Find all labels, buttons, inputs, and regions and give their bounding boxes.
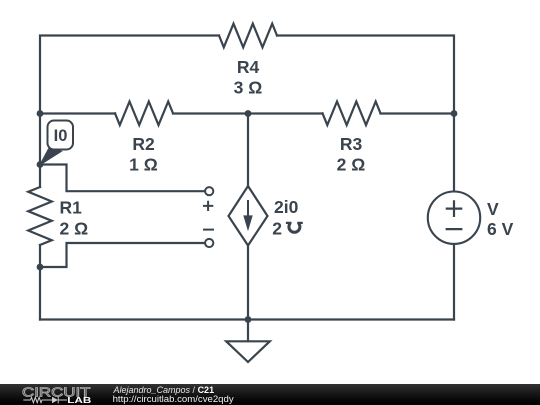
voltage source V1 circle (428, 192, 480, 244)
terminal nN minus sign (203, 229, 214, 231)
svg-text:2 Ω: 2 Ω (337, 155, 366, 175)
resistor R1 (28, 187, 52, 245)
svg-text:V: V (487, 199, 499, 219)
svg-text:R1: R1 (60, 198, 83, 218)
wire mid-right segment (381, 112, 455, 114)
wire mid-center segment (173, 112, 323, 114)
footer credit line 2 (113, 395, 234, 405)
CircuitLab logo (0, 384, 100, 405)
footer bar (0, 384, 540, 405)
wire right rail lower (453, 244, 455, 320)
svg-text:2: 2 (272, 219, 282, 239)
wire top-right: top wire right half + right rail upper (277, 36, 454, 192)
svg-text:1 Ω: 1 Ω (129, 155, 158, 175)
svg-text:LAB: LAB (67, 396, 91, 405)
wire to G1 minus terminal (40, 243, 205, 267)
wire mid-left segment (40, 112, 115, 114)
wire G1 bottom to bottom rail (247, 246, 249, 320)
svg-text:R3: R3 (340, 134, 363, 154)
svg-text:2 Ω: 2 Ω (60, 219, 89, 239)
wire from node B down to G1 top (247, 114, 249, 187)
svg-text:I0: I0 (54, 127, 68, 145)
wire top-left: left rail upper + top wire left half (40, 36, 219, 188)
wire left rail lower (39, 245, 41, 320)
resistor R3 (323, 102, 381, 126)
current source G1 diamond (229, 186, 268, 246)
logo doodle resistor (23, 397, 52, 402)
terminal nP open circle (205, 187, 213, 195)
ground symbol (226, 341, 270, 362)
resistor R2 (115, 102, 173, 126)
junction node dot (248,319.5) (245, 316, 252, 323)
junction node dot (454,113.5) (451, 110, 458, 117)
junction node dot (40,164.5) (37, 161, 44, 168)
wire to G1 plus terminal (40, 165, 205, 192)
resistor R4 (219, 24, 277, 48)
svg-text:2i0: 2i0 (274, 197, 299, 217)
junction node dot (40,113.5) (37, 110, 44, 117)
junction node dot (40,267) (37, 264, 44, 271)
footer credit line 1 (114, 386, 215, 395)
terminal nP plus sign (203, 201, 213, 211)
svg-text:R2: R2 (132, 134, 155, 154)
svg-text:6 V: 6 V (487, 219, 514, 239)
terminal nN open circle (205, 239, 213, 247)
wire bottom rail (40, 318, 454, 320)
junction node dot (248,113.5) (245, 110, 252, 117)
current source G1 arrow (243, 200, 252, 231)
svg-text:R4: R4 (237, 57, 260, 77)
voltage source V1 plus sign (446, 200, 463, 217)
svg-text:3 Ω: 3 Ω (234, 78, 263, 98)
wire ground stem (247, 320, 249, 342)
voltage source V1 minus sign (446, 228, 463, 230)
logo doodle diode (52, 397, 58, 403)
flag I0 callout box (40, 121, 73, 166)
